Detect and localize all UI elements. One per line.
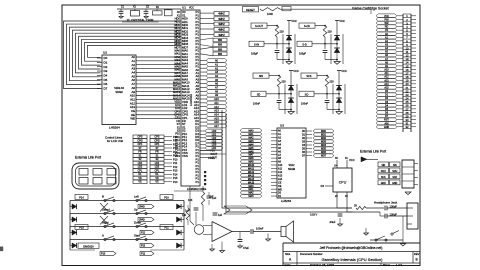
svg-text:FR: FR	[155, 151, 158, 154]
svg-text:Start: Start	[134, 233, 140, 237]
svg-text:P10: P10	[101, 253, 106, 256]
svg-text:REV: REV	[414, 252, 420, 256]
svg-text:VSS: VSS	[182, 154, 188, 158]
svg-text:P12: P12	[173, 166, 178, 169]
svg-text:ST: ST	[155, 147, 159, 150]
svg-text:LD2: LD2	[138, 166, 143, 169]
svg-text:MA3: MA3	[249, 195, 255, 198]
svg-text:VCC: VCC	[291, 19, 297, 23]
svg-text:LH5264: LH5264	[109, 125, 120, 129]
svg-text:A16: A16	[214, 121, 219, 124]
svg-text:DMG610: DMG610	[83, 244, 94, 248]
svg-text:External Link Port: External Link Port	[360, 150, 386, 154]
svg-text:SCK: SCK	[306, 74, 312, 78]
svg-text:1uF: 1uF	[212, 197, 217, 200]
svg-text:P13: P13	[173, 147, 178, 150]
svg-text:SCK: SCK	[392, 177, 397, 179]
svg-text:P13: P13	[141, 246, 146, 248]
svg-text:S1R2-64: S1R2-64	[114, 87, 124, 90]
svg-text:P12: P12	[173, 143, 178, 146]
svg-text:D4: D4	[321, 184, 325, 188]
svg-text:P14: P14	[79, 197, 84, 200]
svg-text:for LCD Unit: for LCD Unit	[107, 139, 123, 143]
svg-text:A: A	[102, 233, 104, 237]
svg-text:S1R2: S1R2	[289, 164, 296, 167]
svg-text:SCK: SCK	[381, 177, 386, 179]
svg-text:P1: P1	[195, 180, 199, 184]
svg-text:VS: VS	[138, 181, 142, 184]
svg-text:100pF: 100pF	[251, 53, 259, 56]
svg-text:100nF: 100nF	[301, 103, 309, 106]
svg-text:P11: P11	[141, 253, 146, 256]
svg-text:RESET: RESET	[246, 8, 255, 12]
svg-text:LD1: LD1	[155, 162, 160, 165]
svg-text:External Link Port: External Link Port	[75, 156, 101, 160]
svg-text:P10: P10	[173, 136, 178, 139]
svg-text:D7: D7	[104, 87, 108, 91]
svg-text:S-OUT: S-OUT	[255, 24, 263, 28]
svg-text:CPU: CPU	[339, 181, 347, 185]
svg-text:GND: GND	[381, 183, 386, 185]
svg-text:4MHZ: 4MHZ	[218, 13, 225, 16]
svg-text:VD: VD	[155, 177, 159, 180]
svg-text:ST: ST	[138, 147, 142, 150]
svg-text:220: 220	[328, 31, 333, 34]
svg-text:P11: P11	[164, 227, 169, 230]
svg-text:P15: P15	[79, 227, 84, 230]
svg-text:P12: P12	[141, 233, 146, 235]
svg-text:P14: P14	[173, 151, 178, 154]
svg-text:Game Cartridge Socket: Game Cartridge Socket	[352, 7, 389, 11]
svg-text:100K: 100K	[267, 12, 273, 16]
svg-text:P10: P10	[173, 181, 178, 184]
svg-text:4MHZ: 4MHZ	[218, 18, 225, 21]
svg-text:6B0: 6B0	[218, 54, 223, 56]
svg-text:47uF: 47uF	[243, 246, 249, 250]
svg-text:1uF: 1uF	[218, 214, 223, 217]
svg-text:P11: P11	[173, 162, 178, 165]
svg-text:October 23, 1998: October 23, 1998	[310, 263, 334, 267]
svg-text:CPL: CPL	[138, 169, 143, 172]
svg-text:S-CK: S-CK	[304, 24, 310, 28]
svg-text:SIN: SIN	[259, 74, 263, 78]
svg-text:P13: P13	[173, 170, 178, 173]
svg-text:Left: Left	[134, 194, 139, 198]
svg-text:SD: SD	[257, 92, 261, 96]
svg-text:100nF: 100nF	[253, 103, 261, 106]
svg-text:S-IN: S-IN	[254, 42, 259, 46]
svg-text:SIN: SIN	[381, 165, 385, 167]
svg-text:P10: P10	[164, 197, 169, 200]
svg-text:CP1: CP1	[155, 143, 160, 146]
svg-text:U3: U3	[280, 124, 284, 128]
svg-text:A13: A13	[214, 110, 219, 113]
svg-text:P11: P11	[173, 140, 178, 143]
svg-text:LD1: LD1	[138, 162, 143, 165]
svg-text:FR: FR	[138, 151, 141, 154]
svg-text:SRAM: SRAM	[288, 168, 295, 171]
svg-text:LR35902: LR35902	[189, 94, 193, 107]
svg-text:VD: VD	[138, 177, 142, 180]
svg-text:SO: SO	[305, 92, 309, 96]
svg-text:CPS: CPS	[138, 136, 143, 139]
svg-text:4MHZ: 4MHZ	[218, 29, 225, 32]
svg-text:100uF: 100uF	[256, 227, 264, 231]
svg-text:LOUT: LOUT	[211, 157, 218, 160]
svg-text:6B0: 6B0	[218, 49, 223, 51]
svg-text:4MHZ: 4MHZ	[218, 34, 225, 37]
svg-text:U1: U1	[182, 6, 186, 10]
svg-text:P10: P10	[173, 158, 178, 161]
svg-text:6B0: 6B0	[218, 45, 223, 47]
svg-text:P15: P15	[173, 177, 178, 180]
svg-text:Jeff Frohwein (jfrohwein@GBOnl: Jeff Frohwein (jfrohwein@GBOnline.net)	[320, 246, 383, 250]
svg-text:3.18 V: 3.18 V	[310, 214, 318, 217]
svg-text:SOU: SOU	[381, 171, 386, 173]
svg-text:CP1: CP1	[138, 143, 143, 146]
svg-text:Sheet: Sheet	[383, 264, 390, 267]
svg-text:LD2: LD2	[155, 166, 160, 169]
svg-text:CPG: CPG	[154, 139, 159, 142]
svg-text:4MHZ: 4MHZ	[218, 23, 225, 26]
svg-text:MD7: MD7	[321, 155, 327, 158]
svg-text:VS: VS	[155, 181, 159, 184]
svg-text:1 of 1: 1 of 1	[396, 263, 403, 267]
svg-text:VCC: VCC	[189, 8, 194, 10]
svg-text:GND: GND	[384, 126, 390, 129]
svg-text:A15: A15	[214, 117, 219, 120]
svg-text:220: 220	[280, 31, 285, 34]
svg-text:.04uF: .04uF	[329, 221, 336, 224]
svg-text:Up: Up	[134, 207, 138, 211]
svg-text:SRAM: SRAM	[115, 91, 122, 94]
svg-text:U4: U4	[334, 163, 338, 167]
svg-text:VCC: VCC	[339, 19, 345, 23]
svg-text:VCC: VCC	[341, 69, 347, 73]
svg-text:A14: A14	[214, 113, 219, 116]
svg-text:SIN: SIN	[393, 165, 397, 167]
svg-text:JPAD: JPAD	[139, 219, 145, 222]
svg-text:GND: GND	[392, 183, 397, 185]
svg-text:10K: 10K	[182, 214, 187, 217]
svg-text:GameBoy Internals (CPU Section: GameBoy Internals (CPU Section)	[322, 257, 384, 262]
svg-text:Size: Size	[285, 252, 291, 256]
svg-text:WE: WE	[130, 117, 135, 121]
svg-text:CPL: CPL	[155, 169, 160, 172]
svg-text:LH5264: LH5264	[281, 199, 292, 203]
svg-text:P15: P15	[173, 155, 178, 158]
svg-text:220: 220	[282, 81, 287, 84]
svg-text:VCC: VCC	[349, 158, 355, 162]
svg-text:Date:: Date:	[285, 263, 292, 267]
svg-text:XL CRYSTAL TRIM: XL CRYSTAL TRIM	[127, 18, 154, 22]
svg-text:A10: A10	[214, 98, 219, 101]
svg-text:100pF: 100pF	[299, 53, 307, 56]
svg-text:Headphone Jack: Headphone Jack	[374, 201, 398, 205]
svg-text:10K: 10K	[188, 199, 193, 202]
svg-text:220: 220	[330, 81, 335, 84]
svg-text:Document Number: Document Number	[300, 252, 323, 256]
svg-text:VCC: VCC	[293, 69, 299, 73]
svg-text:P14: P14	[173, 173, 178, 176]
svg-text:CPS: CPS	[155, 136, 160, 139]
svg-text:JPAD: JPAD	[139, 206, 145, 209]
svg-text:S-D: S-D	[302, 42, 307, 46]
svg-text:CPG: CPG	[137, 139, 142, 142]
svg-text:U2: U2	[103, 51, 107, 55]
svg-text:A12: A12	[214, 106, 219, 109]
svg-text:A17: A17	[214, 125, 219, 128]
svg-text:6B0: 6B0	[218, 40, 223, 42]
svg-text:SOU: SOU	[392, 171, 397, 173]
svg-text:A11: A11	[214, 102, 219, 105]
svg-text:B: B	[102, 194, 104, 198]
